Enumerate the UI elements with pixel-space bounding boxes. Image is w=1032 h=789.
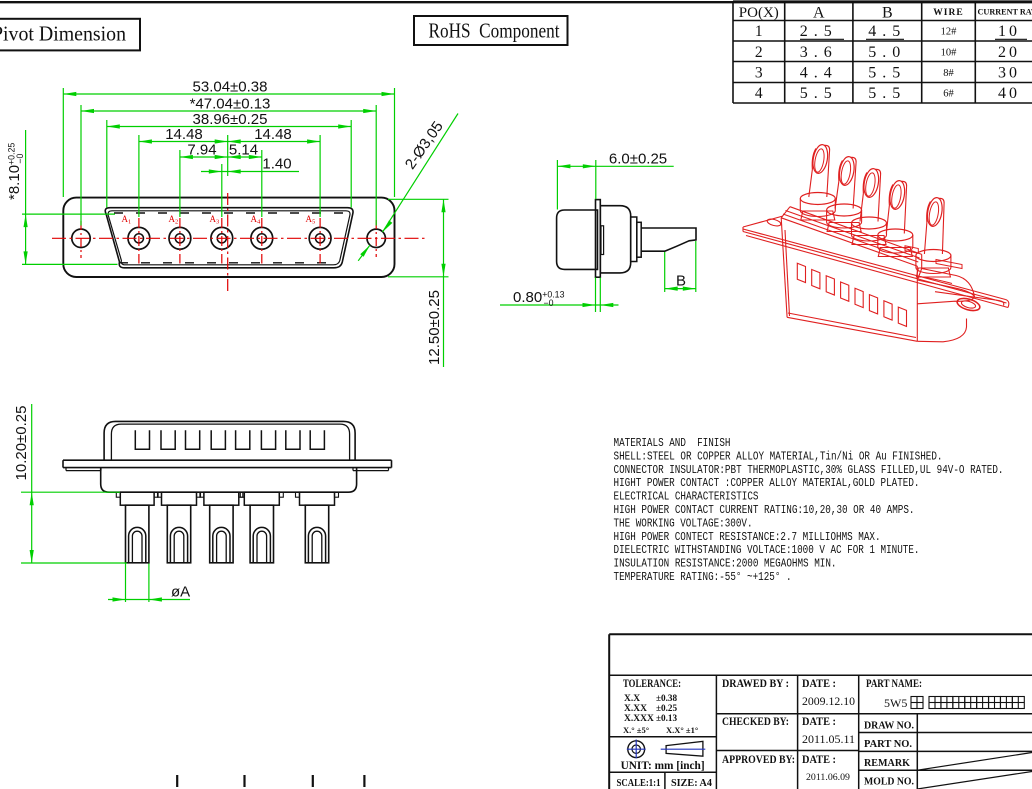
svg-text:TEMPERATURE RATING:-55° ~+125°: TEMPERATURE RATING:-55° ~+125° . xyxy=(614,570,792,584)
contact A5 vertical centerline xyxy=(319,218,321,264)
spec table row 1 xyxy=(755,23,1020,40)
3D pin 2 base pad xyxy=(827,223,861,232)
back view pin 2 nubs xyxy=(158,492,162,497)
3D pin 1 cut opening xyxy=(811,144,830,175)
back view slot 2 xyxy=(161,430,175,449)
svg-text:SIZE: A4: SIZE: A4 xyxy=(671,777,712,789)
3D body slot 5 xyxy=(855,288,863,307)
back view pin 1 base xyxy=(120,492,154,505)
D-opening bottom dashed edge xyxy=(119,262,339,264)
svg-text:INSULATION RESISTANCE:2000 MEG: INSULATION RESISTANCE:2000 MEGAOHMS MIN. xyxy=(614,557,837,571)
projection symbol cone xyxy=(661,741,706,756)
3D body slot 7 xyxy=(884,301,892,320)
dim *47.04±0.13 xyxy=(81,96,376,226)
svg-text:6.0±0.25: 6.0±0.25 xyxy=(609,150,667,167)
svg-text:SHELL:STEEL OR COPPER ALLOY MA: SHELL:STEEL OR COPPER ALLOY MATERIAL,Tin… xyxy=(614,449,943,463)
svg-text:SCALE:1:1: SCALE:1:1 xyxy=(617,777,661,789)
svg-text:TOLERANCE:: TOLERANCE: xyxy=(623,678,681,690)
dim B xyxy=(665,241,696,292)
back view pin 4 shaft xyxy=(250,505,273,563)
3D body left end xyxy=(781,207,790,318)
3D pin 5 base pad xyxy=(916,268,950,277)
back view pin 3 nubs xyxy=(200,492,204,497)
spec table grid xyxy=(733,1,1032,103)
svg-text:X.X° ±1°: X.X° ±1° xyxy=(666,725,698,735)
3D body slot 4 xyxy=(841,282,849,301)
contact A5 inner circle xyxy=(316,234,325,243)
svg-text:2011.05.11: 2011.05.11 xyxy=(802,732,855,746)
contact A3 vertical centerline xyxy=(221,218,223,264)
vertical centerline (drawing center) xyxy=(227,193,229,292)
back view lower body xyxy=(101,468,357,493)
front view D-opening inner xyxy=(108,211,350,265)
3D body slot 2 xyxy=(812,270,820,289)
contact A4 outer circle xyxy=(251,227,273,249)
side view flange plate xyxy=(596,200,601,278)
back view pin 5 shaft xyxy=(305,505,328,563)
svg-text:14.48: 14.48 xyxy=(165,126,203,143)
fold tick 177 xyxy=(176,775,178,787)
fold tick 364 xyxy=(363,775,365,787)
dim 5.14 xyxy=(228,142,262,218)
contact A4 vertical centerline xyxy=(261,218,263,264)
left hole vertical centerline xyxy=(80,221,82,258)
3D pin 4 collar xyxy=(878,229,913,253)
svg-text:±0.38: ±0.38 xyxy=(656,693,678,703)
side view inner detail xyxy=(601,226,604,255)
svg-text:10#: 10# xyxy=(941,47,958,58)
svg-text:WIRE: WIRE xyxy=(933,8,963,18)
svg-text:X.XX: X.XX xyxy=(624,704,647,714)
back view pin 5 nubs xyxy=(296,492,300,497)
3D body top chamfer edges xyxy=(781,207,922,266)
svg-text:A: A xyxy=(813,5,825,22)
back view pin 3 base xyxy=(204,492,239,505)
contact A2 vertical centerline xyxy=(179,218,181,264)
svg-text:8#: 8# xyxy=(943,68,954,79)
svg-text:12#: 12# xyxy=(941,27,958,38)
svg-text:40: 40 xyxy=(998,85,1020,102)
remark cell diagonal xyxy=(917,753,1032,771)
svg-text:HIGHT POWER CONTACT :COPPER AL: HIGHT POWER CONTACT :COPPER ALLOY MATERI… xyxy=(614,476,920,490)
svg-text:CONNECTOR INSULATOR:PBT THERMO: CONNECTOR INSULATOR:PBT THERMOPLASTIC,30… xyxy=(614,463,1004,477)
RoHS Component label box xyxy=(414,16,568,45)
spec table row 2 xyxy=(755,44,1020,61)
svg-text:UNIT: mm [inch]: UNIT: mm [inch] xyxy=(621,758,705,772)
3D pin 4 cut opening xyxy=(888,180,907,211)
svg-text:1.40: 1.40 xyxy=(262,156,291,173)
row1 underlines xyxy=(800,38,1027,40)
3D body slot 8 xyxy=(898,307,906,326)
back view pin 4 solder cup inner xyxy=(257,531,267,563)
3D pin 1 barrel xyxy=(809,145,830,197)
3D body slot 6 xyxy=(869,295,877,314)
svg-text:A5: A5 xyxy=(306,214,316,226)
svg-text:3.6: 3.6 xyxy=(800,44,838,61)
back view slot 4 xyxy=(211,430,225,449)
svg-text:B: B xyxy=(882,5,893,22)
drawn/checked/approved xyxy=(722,678,795,766)
svg-text:30: 30 xyxy=(998,64,1020,81)
materials and finish text block xyxy=(614,436,1004,584)
back view pin 5 solder cup outer xyxy=(308,527,325,562)
svg-text:X.° ±5°: X.° ±5° xyxy=(623,725,649,735)
contact A2 outer circle xyxy=(169,227,191,249)
fold tick 244 xyxy=(243,775,245,787)
back view pin 2 base xyxy=(162,492,197,505)
3D pin 3 barrel xyxy=(860,169,881,221)
svg-text:10: 10 xyxy=(998,23,1020,40)
svg-text:*8.10+0.25−0: *8.10+0.25−0 xyxy=(6,143,25,200)
3D flange right hole xyxy=(956,296,981,313)
svg-text:PO(X): PO(X) xyxy=(739,5,779,21)
svg-text:6#: 6# xyxy=(943,89,954,100)
svg-text:MATERIALS AND FINISH: MATERIALS AND FINISH xyxy=(614,436,731,450)
dim 6.0±0.25 xyxy=(557,150,673,209)
back view slot 1 xyxy=(135,430,149,449)
dim 7.94 xyxy=(180,142,228,218)
dim 1.40 xyxy=(201,156,299,218)
svg-text:CHECKED BY:: CHECKED BY: xyxy=(722,716,789,728)
back view pin 4 base xyxy=(244,492,279,505)
svg-text:2-Ø3,05: 2-Ø3,05 xyxy=(402,118,447,172)
contact A1 outer circle xyxy=(128,227,150,249)
svg-text:10.20±0.25: 10.20±0.25 xyxy=(13,406,30,481)
3D body slot 1 xyxy=(797,263,805,282)
3D pin 5 barrel xyxy=(924,198,944,254)
3D pin 3 collar xyxy=(852,217,887,241)
part name xyxy=(866,678,1024,710)
svg-text:5.5: 5.5 xyxy=(868,85,906,102)
contact A5 outer circle xyxy=(309,227,331,249)
tolerance texts xyxy=(623,678,698,735)
svg-text:5.0: 5.0 xyxy=(868,44,906,61)
svg-text:PART NAME:: PART NAME: xyxy=(866,678,922,690)
right mounting hole xyxy=(367,229,385,247)
svg-text:øA: øA xyxy=(171,584,190,601)
3D tab left of pin5 xyxy=(905,246,918,254)
back view pin 1 nubs xyxy=(116,492,120,497)
back view pin 4 solder cup outer xyxy=(253,527,270,562)
3D pin 1 collar xyxy=(800,193,835,217)
top border rule xyxy=(0,1,1032,3)
horizontal centerline xyxy=(52,237,426,239)
back view pin 1 shaft xyxy=(126,505,149,563)
svg-text:4: 4 xyxy=(755,85,763,102)
svg-text:1: 1 xyxy=(755,23,763,40)
back view pin 5 base xyxy=(300,492,335,505)
back view slot 5 xyxy=(236,430,250,449)
svg-text:A4: A4 xyxy=(251,214,262,226)
dim 12.50±0.25 xyxy=(388,199,449,367)
svg-text:DATE :: DATE : xyxy=(802,678,836,690)
left mounting hole xyxy=(72,229,90,247)
3D pin 4 base pad xyxy=(878,248,912,257)
side view step 1 xyxy=(631,217,637,262)
3D tab right of pin5 xyxy=(936,260,962,269)
svg-text:DIELECTRIC WITHSTANDING VOLTAC: DIELECTRIC WITHSTANDING VOLTACE:1000 V A… xyxy=(614,543,920,557)
svg-text:DRAWED BY :: DRAWED BY : xyxy=(722,678,789,690)
D-opening top dashed edge xyxy=(114,212,345,214)
svg-text:PART NO.: PART NO. xyxy=(864,738,912,750)
back view pin 2 shaft xyxy=(167,505,190,563)
back view slot 3 xyxy=(186,430,200,449)
spec table header row xyxy=(739,5,1032,22)
svg-text:3: 3 xyxy=(755,64,763,81)
svg-text:4.4: 4.4 xyxy=(800,64,838,81)
contact A3 inner circle xyxy=(217,234,226,243)
dim 10.20±0.25 xyxy=(13,404,127,563)
svg-text:APPROVED BY:: APPROVED BY: xyxy=(722,754,795,766)
3D flange plate xyxy=(743,216,1009,308)
back view pin 1 solder cup outer xyxy=(129,527,146,562)
dim 38.96±0.25 xyxy=(107,111,351,208)
3D pin 2 cut opening xyxy=(837,156,856,187)
scale size row xyxy=(617,777,713,789)
back view pin 3 solder cup inner xyxy=(217,531,227,563)
svg-text:5.5: 5.5 xyxy=(800,85,838,102)
3D pin 3 cut opening xyxy=(862,168,881,199)
svg-text:5.5: 5.5 xyxy=(868,64,906,81)
svg-text:±0.25: ±0.25 xyxy=(656,703,678,713)
dim 53.04±0.38 xyxy=(63,79,394,198)
spec table row 3 xyxy=(755,64,1020,81)
contact A2 inner circle xyxy=(175,234,184,243)
svg-text:B: B xyxy=(676,273,686,290)
contact A4 inner circle xyxy=(257,234,266,243)
svg-text:5W5: 5W5 xyxy=(884,696,907,710)
svg-text:X.X: X.X xyxy=(624,694,640,704)
svg-text:CURRENT RATING(A: CURRENT RATING(A xyxy=(978,8,1032,17)
3D pin 4 barrel xyxy=(886,181,906,233)
svg-text:A1: A1 xyxy=(122,214,132,226)
mold no cell diagonal xyxy=(917,772,1032,789)
3D body right cap xyxy=(917,254,974,341)
svg-text:53.04±0.38: 53.04±0.38 xyxy=(193,79,268,96)
back view pin 3 shaft xyxy=(210,505,233,563)
3D body slot 3 xyxy=(826,276,834,295)
svg-text:THE WORKING VOLTAGE:300V.: THE WORKING VOLTAGE:300V. xyxy=(614,516,753,530)
back view pin 1 solder cup inner xyxy=(132,531,142,563)
dim *8.10 +0.25/-0 xyxy=(6,130,118,264)
dim 0.80 +0.13/-0 xyxy=(500,278,619,313)
svg-text:*47.04±0.13: *47.04±0.13 xyxy=(190,96,271,113)
svg-text:DATE :: DATE : xyxy=(802,754,836,766)
svg-text:HIGH POWER CONTECT RESISTANCE:: HIGH POWER CONTECT RESISTANCE:2.7 MILLIO… xyxy=(614,530,881,544)
svg-text:HIGH POWER CONTACT CURRENT RAT: HIGH POWER CONTACT CURRENT RATING:10,20,… xyxy=(614,503,915,517)
svg-text:RoHS Component: RoHS Component xyxy=(429,19,560,43)
back view slot 7 xyxy=(286,430,300,449)
right hole vertical centerline xyxy=(375,220,377,257)
back view pin 3 solder cup outer xyxy=(213,527,230,562)
3D pin 3 base pad xyxy=(852,236,886,245)
back view flange plate xyxy=(63,460,392,470)
3D body front bottom edge xyxy=(787,313,917,341)
side view step 2 xyxy=(637,222,641,257)
title block grid xyxy=(609,675,1032,789)
svg-text:12.50±0.25: 12.50±0.25 xyxy=(426,290,443,365)
contact A1 inner circle xyxy=(134,234,143,243)
back view pin 5 solder cup inner xyxy=(312,531,322,563)
svg-text:ELECTRICAL CHARACTERISTICS: ELECTRICAL CHARACTERISTICS xyxy=(614,490,759,504)
spec table row 4 xyxy=(755,85,1020,102)
svg-text:X.XXX: X.XXX xyxy=(624,714,654,724)
3D flange left hole xyxy=(766,218,781,227)
svg-text:REMARK: REMARK xyxy=(864,757,910,769)
3D pin 5 cut opening xyxy=(925,197,944,228)
3D pin 5 collar xyxy=(916,250,951,274)
svg-text:2.5: 2.5 xyxy=(800,23,838,40)
svg-text:20: 20 xyxy=(998,44,1020,61)
3D pin 2 collar xyxy=(827,204,862,228)
front view shell outline xyxy=(63,198,394,277)
svg-text:14.48: 14.48 xyxy=(254,126,292,143)
front view D-opening outer xyxy=(105,208,353,268)
fold tick 313 xyxy=(312,775,314,787)
svg-text:MOLD NO.: MOLD NO. xyxy=(864,776,914,788)
3D pin 2 barrel xyxy=(835,157,856,208)
svg-text:DRAW NO.: DRAW NO. xyxy=(864,720,914,732)
svg-text:5.14: 5.14 xyxy=(229,142,258,159)
svg-text:Pivot Dimension: Pivot Dimension xyxy=(0,22,126,46)
back view pin 2 solder cup inner xyxy=(174,531,184,563)
3D lower shell right corner xyxy=(917,319,966,342)
svg-text:2009.12.10: 2009.12.10 xyxy=(802,694,855,708)
title block outer border xyxy=(609,634,1032,789)
side view solder arm xyxy=(641,228,696,251)
3D pin 1 base pad xyxy=(801,211,835,220)
back view slot 8 xyxy=(310,430,324,449)
svg-text:4.5: 4.5 xyxy=(868,23,906,40)
draw/part/remark/mold labels xyxy=(864,720,914,788)
back view pin 2 solder cup outer xyxy=(170,527,187,562)
dim 14.48 right xyxy=(228,126,320,217)
svg-text:2: 2 xyxy=(755,44,763,61)
dim 14.48 left xyxy=(139,126,228,217)
side view contact body left xyxy=(557,210,598,269)
svg-text:7.94: 7.94 xyxy=(187,142,216,159)
leader 2-Ø3,05 xyxy=(358,114,458,261)
svg-text:A2: A2 xyxy=(169,214,179,226)
dim ØA xyxy=(108,564,190,603)
projection symbol circle xyxy=(627,740,646,759)
svg-text:2011.06.09: 2011.06.09 xyxy=(806,773,850,783)
dates xyxy=(802,678,855,783)
back view shell outer xyxy=(104,421,355,460)
svg-text:A3: A3 xyxy=(210,214,220,226)
contact A1 vertical centerline xyxy=(138,218,140,264)
svg-text:DATE :: DATE : xyxy=(802,716,836,728)
back view pin 4 nubs xyxy=(240,492,244,497)
back view slot 6 xyxy=(261,430,275,449)
back view shell inner xyxy=(111,424,349,460)
Pivot Dimension label box xyxy=(0,19,140,51)
svg-text:±0.13: ±0.13 xyxy=(656,713,678,723)
contact A3 outer circle xyxy=(211,227,233,249)
side view body right xyxy=(600,206,630,273)
